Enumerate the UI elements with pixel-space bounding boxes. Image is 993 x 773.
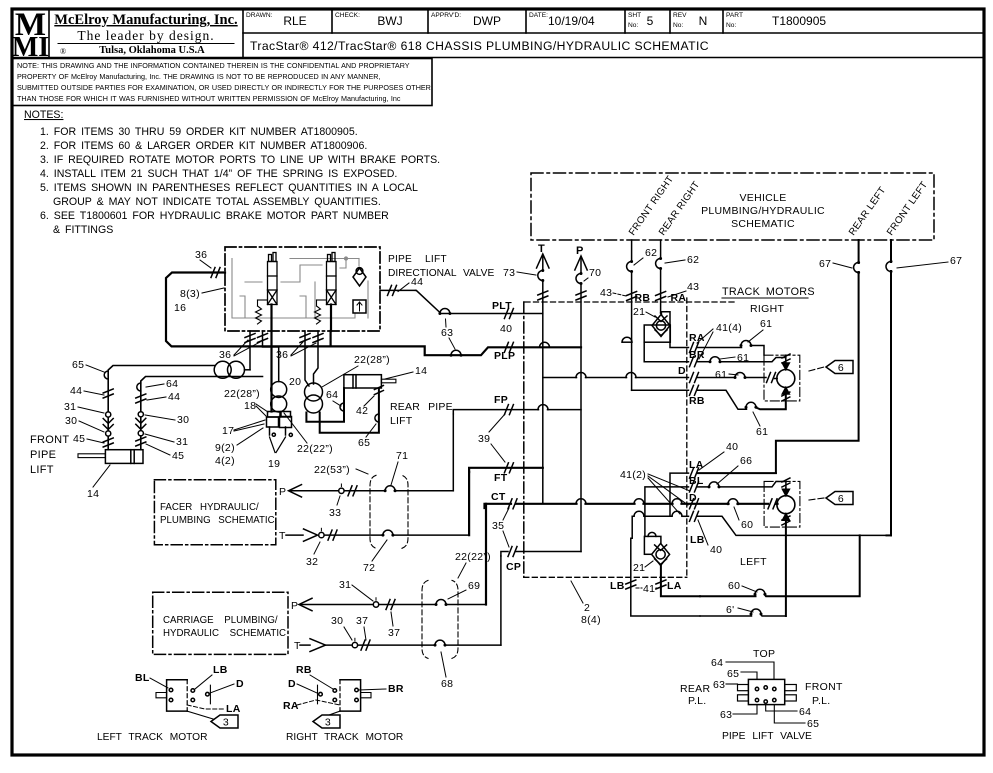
vertical FP to facer P: [452, 414, 454, 491]
svg-text:REAR PIPE: REAR PIPE: [390, 401, 453, 413]
svg-text:N: N: [699, 14, 708, 28]
svg-text:LB: LB: [213, 664, 228, 676]
rear lift lines + pilot checks: [306, 388, 344, 422]
left track motor symbol: [167, 680, 188, 711]
svg-text:4(2): 4(2): [215, 455, 235, 467]
svg-text:33: 33: [329, 507, 341, 519]
svg-text:36: 36: [219, 349, 231, 361]
svg-text:45: 45: [172, 450, 184, 462]
svg-text:No:: No:: [673, 22, 683, 29]
svg-text:FACER HYDRAULIC/: FACER HYDRAULIC/: [160, 502, 259, 513]
svg-text:61: 61: [756, 426, 768, 438]
svg-text:HYDRAULIC SCHEMATIC: HYDRAULIC SCHEMATIC: [163, 628, 286, 639]
svg-text:PROPERTY OF McElroy Manufactur: PROPERTY OF McElroy Manufacturing, Inc. …: [17, 72, 380, 81]
svg-text:64: 64: [166, 378, 178, 390]
svg-text:RB: RB: [296, 664, 312, 676]
svg-text:16: 16: [174, 302, 186, 314]
front pipe lift column lines: [108, 366, 214, 450]
flag 6 (left motor): [809, 498, 824, 500]
valve internal piping (light): [232, 257, 368, 318]
manifold fittings 17/18: [268, 412, 281, 418]
svg-text:1. FOR ITEMS 30 THRU 59 ORDER: 1. FOR ITEMS 30 THRU 59 ORDER KIT NUMBER…: [40, 126, 358, 138]
svg-text:LIFT: LIFT: [30, 464, 54, 476]
svg-text:PLUMBING SCHEMATIC: PLUMBING SCHEMATIC: [160, 515, 275, 526]
vertical CP to carriage T: [500, 556, 502, 645]
svg-text:43: 43: [600, 287, 612, 299]
hose wrap 22(53"): [370, 475, 408, 548]
wire FRONT LEFT: [890, 240, 892, 262]
svg-text:RA: RA: [283, 700, 299, 712]
svg-text:65: 65: [807, 718, 819, 730]
svg-text:FRONT: FRONT: [805, 681, 843, 693]
vertical CT to carriage P: [485, 504, 487, 605]
svg-text:36: 36: [195, 249, 207, 261]
wire: valve out 44 / PLT: [380, 289, 416, 291]
svg-text:41: 41: [643, 583, 655, 595]
svg-text:39: 39: [478, 433, 490, 445]
svg-text:PART: PART: [726, 12, 743, 19]
svg-text:61: 61: [760, 318, 772, 330]
right track motor symbol: [340, 680, 361, 711]
svg-text:PIPE LIFT: PIPE LIFT: [388, 254, 447, 265]
flag 3 (right): [318, 711, 340, 719]
svg-text:37: 37: [356, 615, 368, 627]
svg-text:6: 6: [838, 493, 844, 505]
facer hydraulic/plumbing schematic box: [154, 480, 275, 545]
svg-text:37: 37: [388, 627, 400, 639]
wire REAR LEFT: [858, 240, 860, 263]
carriage plumbing/hydraulic schematic box: [153, 592, 288, 654]
svg-text:63: 63: [720, 709, 732, 721]
svg-text:THAN THOSE FOR WHICH IT WAS FU: THAN THOSE FOR WHICH IT WAS FURNISHED WI…: [17, 94, 401, 103]
svg-text:DWP: DWP: [473, 14, 501, 28]
svg-text:P: P: [576, 245, 584, 257]
svg-text:35: 35: [492, 520, 504, 532]
svg-text:31: 31: [339, 579, 351, 591]
nozzle arrows 19: [270, 437, 276, 453]
col1 symbols: [104, 371, 108, 379]
svg-text:21: 21: [633, 306, 645, 318]
svg-text:REV: REV: [673, 12, 687, 19]
valve stems to manifold: [270, 305, 272, 412]
check valve in valve box: [353, 268, 366, 286]
wire LB lower vertical: [631, 538, 700, 616]
svg-text:®: ®: [60, 47, 66, 56]
svg-text:Tulsa, Oklahoma U.S.A: Tulsa, Oklahoma U.S.A: [99, 45, 205, 56]
svg-text:LIFT: LIFT: [390, 415, 413, 427]
svg-text:19: 19: [268, 458, 280, 470]
svg-text:PIPE LIFT VALVE: PIPE LIFT VALVE: [722, 731, 812, 742]
svg-text:5: 5: [647, 14, 654, 28]
svg-text:CHECK:: CHECK:: [335, 12, 360, 19]
svg-text:BR: BR: [689, 349, 705, 361]
svg-text:45: 45: [73, 433, 85, 445]
svg-text:22(53”): 22(53”): [314, 464, 350, 476]
svg-text:CARRIAGE PLUMBING/: CARRIAGE PLUMBING/: [163, 615, 278, 626]
vertical FT to facer T: [468, 472, 470, 535]
svg-text:REAR: REAR: [680, 683, 710, 695]
svg-text:14: 14: [415, 365, 427, 377]
wire RB from vehicle: [631, 240, 633, 262]
title block frame: [12, 10, 984, 106]
svg-text:RIGHT TRACK MOTOR: RIGHT TRACK MOTOR: [286, 732, 403, 743]
svg-text:T: T: [538, 243, 545, 255]
hose coil 64 pair (rear lift): [305, 383, 323, 401]
63 hose arcs: [440, 309, 450, 314]
svg-text:SHT: SHT: [628, 12, 641, 19]
svg-text:No:: No:: [726, 22, 736, 29]
svg-text:65: 65: [72, 359, 84, 371]
svg-text:30: 30: [65, 415, 77, 427]
svg-text:62: 62: [687, 254, 699, 266]
svg-text:30: 30: [177, 414, 189, 426]
svg-text:20: 20: [289, 376, 301, 388]
svg-text:LEFT: LEFT: [740, 556, 767, 568]
svg-text:RB: RB: [689, 395, 705, 407]
svg-text:FT: FT: [494, 472, 508, 484]
svg-text:P: P: [279, 486, 286, 498]
svg-text:64: 64: [799, 706, 811, 718]
hose connection dots: [438, 312, 441, 315]
svg-text:66: 66: [740, 455, 752, 467]
svg-text:LA: LA: [667, 580, 682, 592]
svg-text:6: 6: [838, 362, 844, 374]
svg-text:TracStar® 412/TracStar® 618 C: TracStar® 412/TracStar® 618 CHASSIS PLUM…: [250, 39, 709, 53]
McElroy logo: [12, 7, 49, 63]
svg-text:22(22”): 22(22”): [455, 551, 491, 563]
svg-text:BR: BR: [388, 683, 404, 695]
svg-text:22(28”): 22(28”): [224, 388, 260, 400]
svg-text:MI: MI: [12, 32, 49, 63]
svg-text:APPRV'D:: APPRV'D:: [431, 12, 461, 19]
svg-text:NOTES:: NOTES:: [24, 109, 63, 121]
svg-text:73: 73: [503, 267, 515, 279]
vehicle boundary dashed lines: [525, 301, 734, 303]
svg-text:SCHEMATIC: SCHEMATIC: [731, 218, 795, 230]
flag 3 (left): [187, 711, 213, 719]
wire 6-prime bottom run: [700, 615, 752, 617]
svg-text:67: 67: [950, 255, 962, 267]
svg-text:41(4): 41(4): [716, 322, 742, 334]
svg-text:SUBMITTED OUTSIDE PARTIES FOR: SUBMITTED OUTSIDE PARTIES FOR EXAMINATIO…: [17, 83, 431, 92]
svg-text:6': 6': [726, 604, 734, 616]
svg-text:McElroy Manufacturing, Inc.: McElroy Manufacturing, Inc.: [54, 12, 237, 28]
valve outputs below box with 36 ticks: [249, 331, 251, 370]
wire check box to BR port: [644, 342, 688, 362]
svg-text:5. ITEMS SHOWN IN PARENTHESES: 5. ITEMS SHOWN IN PARENTHESES REFLECT QU…: [40, 182, 418, 194]
svg-text:CP: CP: [506, 561, 521, 573]
wire T vertical: [542, 256, 544, 271]
svg-text:BL: BL: [135, 672, 150, 684]
svg-text:6. SEE T1800601 FOR HYDRAULIC: 6. SEE T1800601 FOR HYDRAULIC BRAKE MOTO…: [40, 210, 389, 222]
svg-text:TOP: TOP: [753, 648, 775, 660]
svg-text:LB: LB: [690, 534, 705, 546]
svg-text:31: 31: [64, 401, 76, 413]
wire RA from vehicle: [660, 240, 662, 259]
solenoid valve V1: [256, 253, 337, 325]
svg-text:PLUMBING/HYDRAULIC: PLUMBING/HYDRAULIC: [701, 205, 825, 217]
check valve 21 (lower): [644, 536, 661, 554]
col2 symbols: [137, 383, 141, 391]
svg-text:8(3): 8(3): [180, 288, 200, 300]
svg-text:18: 18: [244, 400, 256, 412]
wire RA elbow to RA port: [661, 312, 688, 348]
svg-text:9(2): 9(2): [215, 442, 235, 454]
svg-text:72: 72: [363, 562, 375, 574]
svg-text:DRAWN:: DRAWN:: [246, 12, 273, 19]
wire LA lower vertical: [661, 565, 700, 596]
svg-text:PIPE: PIPE: [30, 449, 56, 461]
svg-text:30: 30: [331, 615, 343, 627]
svg-text:T: T: [294, 640, 301, 652]
wire P vertical: [580, 258, 582, 274]
svg-text:NOTE: THIS DRAWING AND THE INF: NOTE: THIS DRAWING AND THE INFORMATION C…: [17, 61, 410, 70]
svg-text:44: 44: [411, 276, 423, 288]
svg-text:43: 43: [687, 281, 699, 293]
svg-text:63: 63: [713, 679, 725, 691]
svg-text:P: P: [291, 600, 298, 612]
svg-text:61: 61: [715, 369, 727, 381]
svg-text:LEFT TRACK MOTOR: LEFT TRACK MOTOR: [97, 732, 207, 743]
svg-text:17: 17: [222, 425, 234, 437]
svg-text:LA: LA: [226, 703, 241, 715]
svg-text:68: 68: [441, 678, 453, 690]
svg-text:22(28”): 22(28”): [354, 354, 390, 366]
svg-text:T1800905: T1800905: [772, 14, 826, 28]
front cylinder 14: [105, 450, 143, 464]
svg-text:60: 60: [741, 519, 753, 531]
notes list: [24, 109, 440, 236]
svg-text:65: 65: [727, 668, 739, 680]
svg-text:CT: CT: [491, 491, 506, 503]
svg-text:65: 65: [358, 437, 370, 449]
svg-text:61: 61: [737, 352, 749, 364]
svg-text:69: 69: [468, 580, 480, 592]
svg-text:67: 67: [819, 258, 831, 270]
svg-text:RIGHT: RIGHT: [750, 303, 784, 315]
svg-text:FRONT: FRONT: [30, 434, 69, 446]
title fields: [246, 12, 743, 29]
svg-text:3: 3: [325, 717, 331, 729]
svg-text:64: 64: [711, 657, 723, 669]
svg-text:RLE: RLE: [283, 14, 306, 28]
wire LA bottom run to rear-left join: [700, 595, 756, 597]
svg-text:2. FOR ITEMS 60 & LARGER ORDER: 2. FOR ITEMS 60 & LARGER ORDER KIT NUMBE…: [40, 140, 367, 152]
hose coil 20 (vertical pair): [271, 382, 287, 398]
svg-text:D: D: [288, 678, 296, 690]
svg-text:14: 14: [87, 488, 99, 500]
svg-text:4. INSTALL ITEM 21 SUCH THAT 1: 4. INSTALL ITEM 21 SUCH THAT 1/4” OF THE…: [40, 168, 397, 180]
svg-text:36: 36: [276, 349, 288, 361]
flag 6 (right motor): [809, 367, 824, 371]
proprietary note: [17, 61, 431, 103]
wire bump left of check box: [623, 341, 632, 343]
svg-text:FP: FP: [494, 394, 508, 406]
svg-text:P.L.: P.L.: [688, 695, 707, 707]
svg-text:The leader by design.: The leader by design.: [77, 28, 214, 43]
check valve 21 (right): [660, 313, 663, 315]
pipe lift valve body: [748, 679, 784, 704]
svg-text:40: 40: [726, 441, 738, 453]
svg-text:44: 44: [168, 391, 180, 403]
svg-text:41(2): 41(2): [620, 469, 646, 481]
svg-text:10/19/04: 10/19/04: [548, 14, 595, 28]
svg-text:8(4): 8(4): [581, 614, 601, 626]
svg-text:44: 44: [70, 385, 82, 397]
svg-text:70: 70: [589, 267, 601, 279]
svg-text:D: D: [678, 365, 686, 377]
wire RB to RB port and motor bottom: [632, 389, 689, 391]
svg-text:& FITTINGS: & FITTINGS: [53, 224, 113, 236]
svg-text:LB: LB: [610, 580, 625, 592]
pipe lift directional valve enclosure: [225, 247, 380, 331]
company name: [54, 12, 237, 56]
svg-text:3: 3: [223, 717, 229, 729]
svg-text:GROUP & MAY NOT INDICATE TOTAL: GROUP & MAY NOT INDICATE TOTAL ASSEMBLY …: [53, 196, 381, 208]
svg-text:71: 71: [396, 450, 408, 462]
svg-text:D: D: [689, 492, 697, 504]
svg-text:40: 40: [500, 323, 512, 335]
svg-text:40: 40: [710, 544, 722, 556]
svg-text:T: T: [279, 530, 286, 542]
svg-text:21: 21: [633, 562, 645, 574]
svg-text:64: 64: [326, 389, 338, 401]
svg-text:PLT: PLT: [492, 300, 512, 312]
svg-text:60: 60: [728, 580, 740, 592]
hose wrap 22(22") carriage: [422, 580, 458, 658]
svg-text:P.L.: P.L.: [812, 695, 831, 707]
wire: PLP from valve: [330, 331, 332, 346]
svg-text:DIRECTIONAL VALVE: DIRECTIONAL VALVE: [388, 268, 494, 279]
relief valve box in valve box: [353, 300, 366, 313]
svg-text:3. IF REQUIRED ROTATE MOTOR PO: 3. IF REQUIRED ROTATE MOTOR PORTS TO LIN…: [40, 154, 440, 166]
wire: supply into valve box (36): [166, 273, 331, 347]
motor (left track): [785, 488, 787, 495]
svg-text:LA: LA: [689, 459, 704, 471]
rear pipe lift cylinder 14: [344, 375, 382, 388]
svg-text:63: 63: [441, 327, 453, 339]
svg-text:42: 42: [356, 405, 368, 417]
svg-text:2: 2: [584, 602, 590, 614]
svg-text:VEHICLE: VEHICLE: [739, 192, 786, 204]
svg-text:BWJ: BWJ: [377, 14, 402, 28]
svg-text:22(22”): 22(22”): [297, 443, 333, 455]
svg-text:D: D: [236, 678, 244, 690]
svg-text:31: 31: [176, 436, 188, 448]
svg-text:No:: No:: [628, 22, 638, 29]
svg-text:62: 62: [645, 247, 657, 259]
svg-text:DATE:: DATE:: [529, 12, 548, 19]
motor (right track): [764, 355, 800, 401]
svg-text:32: 32: [306, 556, 318, 568]
vehicle plumbing/hydraulic schematic box: [531, 173, 934, 240]
svg-text:TRACK MOTORS: TRACK MOTORS: [722, 286, 815, 298]
hose coil 22(28") left pair: [214, 361, 231, 378]
